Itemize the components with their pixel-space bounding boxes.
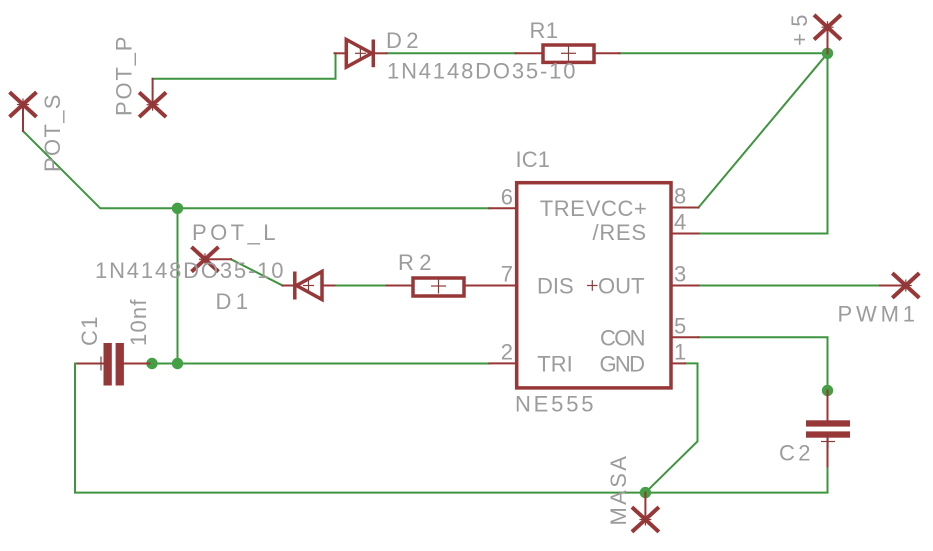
svg-text:NE555: NE555 [515, 392, 595, 417]
pin stub IC1 pin 1 [671, 362, 685, 364]
svg-text:TRI: TRI [537, 351, 572, 376]
node POT_L X marker [193, 248, 217, 270]
resistor R2 [413, 278, 464, 296]
svg-text:1N4148DO35-10: 1N4148DO35-10 [95, 258, 285, 283]
junction node +5 [822, 48, 833, 59]
pin stub IC1 pin 7 / R2 right [464, 285, 517, 287]
wire diagonal POT_L to D1 anode [231, 259, 283, 285]
svg-text:CON: CON [600, 325, 646, 350]
svg-text:POT_P: POT_P [111, 35, 136, 116]
junction node C2 top [822, 385, 833, 396]
wire net POT_P horizontal+vertical to D2 [153, 53, 336, 79]
svg-text:MASA: MASA [606, 455, 631, 526]
op-amp/IC IC1 box [517, 183, 671, 388]
capacitor C1 plates [94, 343, 124, 386]
junction node C1 right [146, 358, 157, 369]
svg-text:5: 5 [674, 313, 686, 338]
wire vertical wiper node down to TRI row [177, 208, 179, 363]
pin stub IC1 pin 2 [489, 362, 516, 364]
svg-text:PWM1: PWM1 [838, 302, 917, 327]
node POT_P X marker [141, 94, 165, 116]
pin stub C2 top [827, 391, 829, 421]
svg-text:GND: GND [600, 351, 646, 376]
pin stub POT_P [152, 79, 154, 105]
svg-text:1: 1 [674, 339, 686, 364]
svg-text:IC1: IC1 [516, 147, 552, 172]
svg-text:POT_L: POT_L [192, 220, 277, 245]
svg-text:8: 8 [674, 184, 686, 209]
diode D1 symbol [295, 272, 322, 300]
pin stub C2 bottom [827, 438, 829, 467]
diode D2 symbol [346, 40, 373, 68]
ground MASA X marker [633, 509, 657, 531]
wire D1 to R2 [335, 285, 387, 287]
pin stub D1 cathode [283, 285, 294, 287]
pin stub C1 left [78, 363, 104, 365]
pin stub +5 [827, 27, 829, 53]
wire diagonal +5 junction to pin 8 [699, 53, 828, 207]
pin stub IC1 pin 3 [671, 285, 699, 287]
wire diagonal from POT_S pin [23, 131, 489, 208]
pin stub C1 right [124, 363, 150, 365]
wire pin 1 down then diagonal to MASA junction [645, 363, 697, 492]
resistor R1 [543, 45, 594, 62]
pin stub IC1 pin 5 [671, 336, 699, 338]
svg-text:10nf: 10nf [126, 298, 151, 346]
svg-text:/RES: /RES [593, 220, 647, 245]
pin stub POT_S [22, 105, 24, 132]
wire pin 5 right then down to C2 top [699, 337, 828, 390]
svg-text:C2: C2 [779, 441, 812, 466]
wire R1 right to +5 junction [620, 52, 828, 54]
pin stub D1 anode [322, 285, 335, 287]
pin stub MASA [644, 493, 646, 520]
pin stub R1 left [516, 52, 544, 54]
pin stub R2 left [387, 285, 414, 287]
pin stub IC1 pin 4 [671, 233, 699, 235]
svg-text:D2: D2 [386, 28, 420, 53]
svg-text:DIS: DIS [537, 274, 574, 299]
svg-text:7: 7 [501, 262, 513, 287]
svg-text:2: 2 [501, 339, 513, 364]
node POT_S X marker [11, 94, 35, 116]
pin stub R1 right [594, 52, 620, 54]
svg-text:4: 4 [674, 210, 686, 235]
svg-text:POT_S: POT_S [40, 93, 65, 172]
junction node MASA [640, 487, 651, 498]
svg-text:3: 3 [674, 262, 686, 287]
svg-text:R1: R1 [530, 18, 560, 43]
svg-text:D1: D1 [216, 289, 250, 314]
capacitor C2 plates [806, 420, 850, 448]
svg-text:1N4148DO35-10: 1N4148DO35-10 [387, 59, 577, 84]
node PWM1 X marker [894, 275, 918, 297]
pin stub D2 cathode [375, 52, 387, 54]
pin stub POT_L [205, 258, 231, 260]
power +5 X marker [816, 16, 840, 38]
svg-text:OUT: OUT [598, 274, 644, 299]
svg-text:VCC+: VCC+ [586, 196, 647, 221]
pin stub IC1 pin 8 [671, 207, 699, 209]
pin stub IC1 pin 6 [489, 207, 516, 209]
svg-text:C1: C1 [77, 315, 102, 346]
wire +5 junction down then left to pin 4 [699, 53, 828, 233]
junction node wiper/pin6 [172, 203, 183, 214]
wire C1 left to corner [75, 363, 78, 365]
pin stub PWM1 [880, 285, 906, 287]
svg-text:6: 6 [501, 184, 513, 209]
wire pin 3 to PWM1 [699, 285, 881, 287]
wire C1 right to pin 2 [150, 363, 490, 365]
pin stub D2 anode [335, 52, 347, 54]
wire left vertical + bottom ground rail + right riser to C2 [75, 364, 828, 493]
wire D2 cathode to R1 left [387, 52, 516, 54]
svg-text:TRE: TRE [540, 196, 585, 221]
junction node TRI row [172, 358, 183, 369]
